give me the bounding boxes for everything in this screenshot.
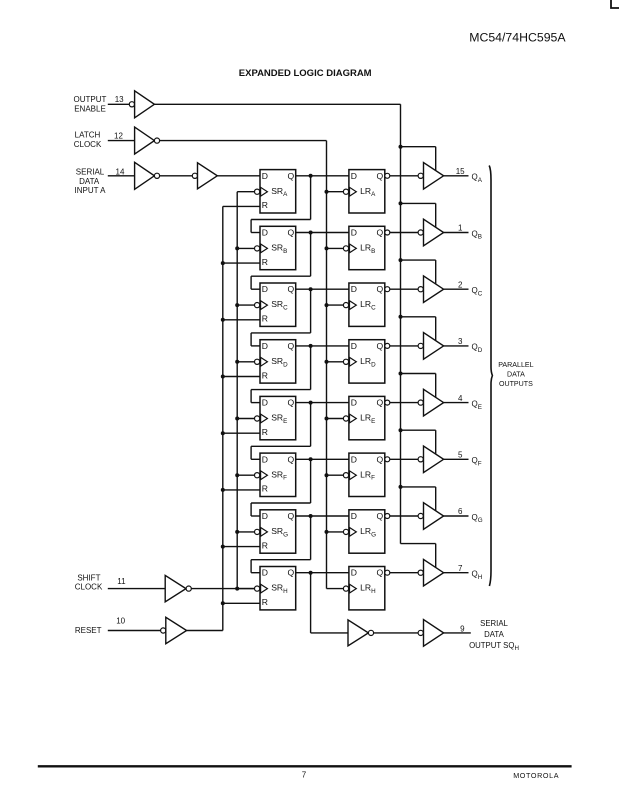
svg-text:D: D (262, 398, 268, 408)
svg-text:OUTPUT: OUTPUT (74, 95, 107, 104)
svg-text:R: R (262, 427, 268, 437)
svg-text:Q: Q (377, 284, 384, 294)
svg-text:Q: Q (377, 341, 384, 351)
svg-text:Q: Q (288, 454, 295, 464)
svg-text:MOTOROLA: MOTOROLA (513, 771, 559, 780)
svg-text:R: R (262, 484, 268, 494)
svg-text:Q: Q (377, 511, 384, 521)
svg-text:12: 12 (114, 131, 123, 140)
svg-text:Q: Q (377, 171, 384, 181)
svg-text:Q: Q (288, 284, 295, 294)
svg-text:MC54/74HC595A: MC54/74HC595A (469, 30, 566, 44)
svg-text:Q: Q (377, 228, 384, 238)
svg-text:DATA: DATA (484, 630, 504, 639)
svg-text:D: D (262, 454, 268, 464)
svg-text:3: 3 (458, 337, 463, 346)
svg-text:Q: Q (377, 454, 384, 464)
svg-text:PARALLEL: PARALLEL (498, 361, 533, 369)
svg-text:D: D (262, 568, 268, 578)
svg-text:SHIFT: SHIFT (77, 573, 100, 582)
svg-text:ENABLE: ENABLE (74, 105, 106, 114)
svg-text:LATCH: LATCH (75, 130, 101, 139)
svg-text:D: D (351, 568, 357, 578)
svg-text:R: R (262, 370, 268, 380)
svg-text:R: R (262, 257, 268, 267)
svg-text:D: D (351, 511, 357, 521)
svg-text:INPUT A: INPUT A (75, 186, 107, 195)
svg-text:D: D (351, 454, 357, 464)
svg-text:D: D (262, 284, 268, 294)
svg-text:CLOCK: CLOCK (74, 140, 102, 149)
svg-text:EXPANDED LOGIC DIAGRAM: EXPANDED LOGIC DIAGRAM (239, 68, 372, 79)
svg-text:CLOCK: CLOCK (75, 583, 103, 592)
svg-text:R: R (262, 597, 268, 607)
svg-text:D: D (262, 511, 268, 521)
svg-text:D: D (262, 341, 268, 351)
svg-text:5: 5 (458, 451, 463, 460)
svg-text:D: D (351, 398, 357, 408)
svg-text:D: D (351, 341, 357, 351)
svg-text:2: 2 (458, 280, 463, 289)
svg-text:1: 1 (458, 224, 463, 233)
svg-text:DATA: DATA (507, 371, 525, 379)
svg-text:DATA: DATA (79, 177, 100, 186)
svg-text:R: R (262, 200, 268, 210)
svg-text:4: 4 (458, 394, 463, 403)
svg-text:RESET: RESET (75, 626, 102, 635)
svg-text:Q: Q (288, 341, 295, 351)
svg-text:Q: Q (288, 398, 295, 408)
svg-text:D: D (351, 228, 357, 238)
svg-text:Q: Q (377, 568, 384, 578)
svg-text:D: D (351, 284, 357, 294)
svg-text:Q: Q (288, 511, 295, 521)
svg-text:D: D (262, 228, 268, 238)
svg-text:14: 14 (116, 167, 125, 176)
svg-text:SERIAL: SERIAL (76, 168, 105, 177)
svg-text:OUTPUTS: OUTPUTS (499, 380, 533, 388)
svg-text:R: R (262, 540, 268, 550)
svg-text:9: 9 (460, 624, 465, 633)
svg-text:D: D (262, 171, 268, 181)
svg-text:7: 7 (302, 771, 307, 780)
svg-text:R: R (262, 314, 268, 324)
svg-text:6: 6 (458, 507, 463, 516)
svg-text:Q: Q (288, 171, 295, 181)
svg-text:10: 10 (116, 616, 125, 625)
svg-text:11: 11 (117, 577, 126, 586)
svg-text:Q: Q (288, 228, 295, 238)
svg-text:13: 13 (115, 95, 124, 104)
svg-text:Q: Q (377, 398, 384, 408)
svg-text:Q: Q (288, 568, 295, 578)
svg-text:SERIAL: SERIAL (480, 619, 508, 628)
svg-text:15: 15 (456, 167, 465, 176)
svg-text:D: D (351, 171, 357, 181)
svg-text:7: 7 (458, 564, 463, 573)
